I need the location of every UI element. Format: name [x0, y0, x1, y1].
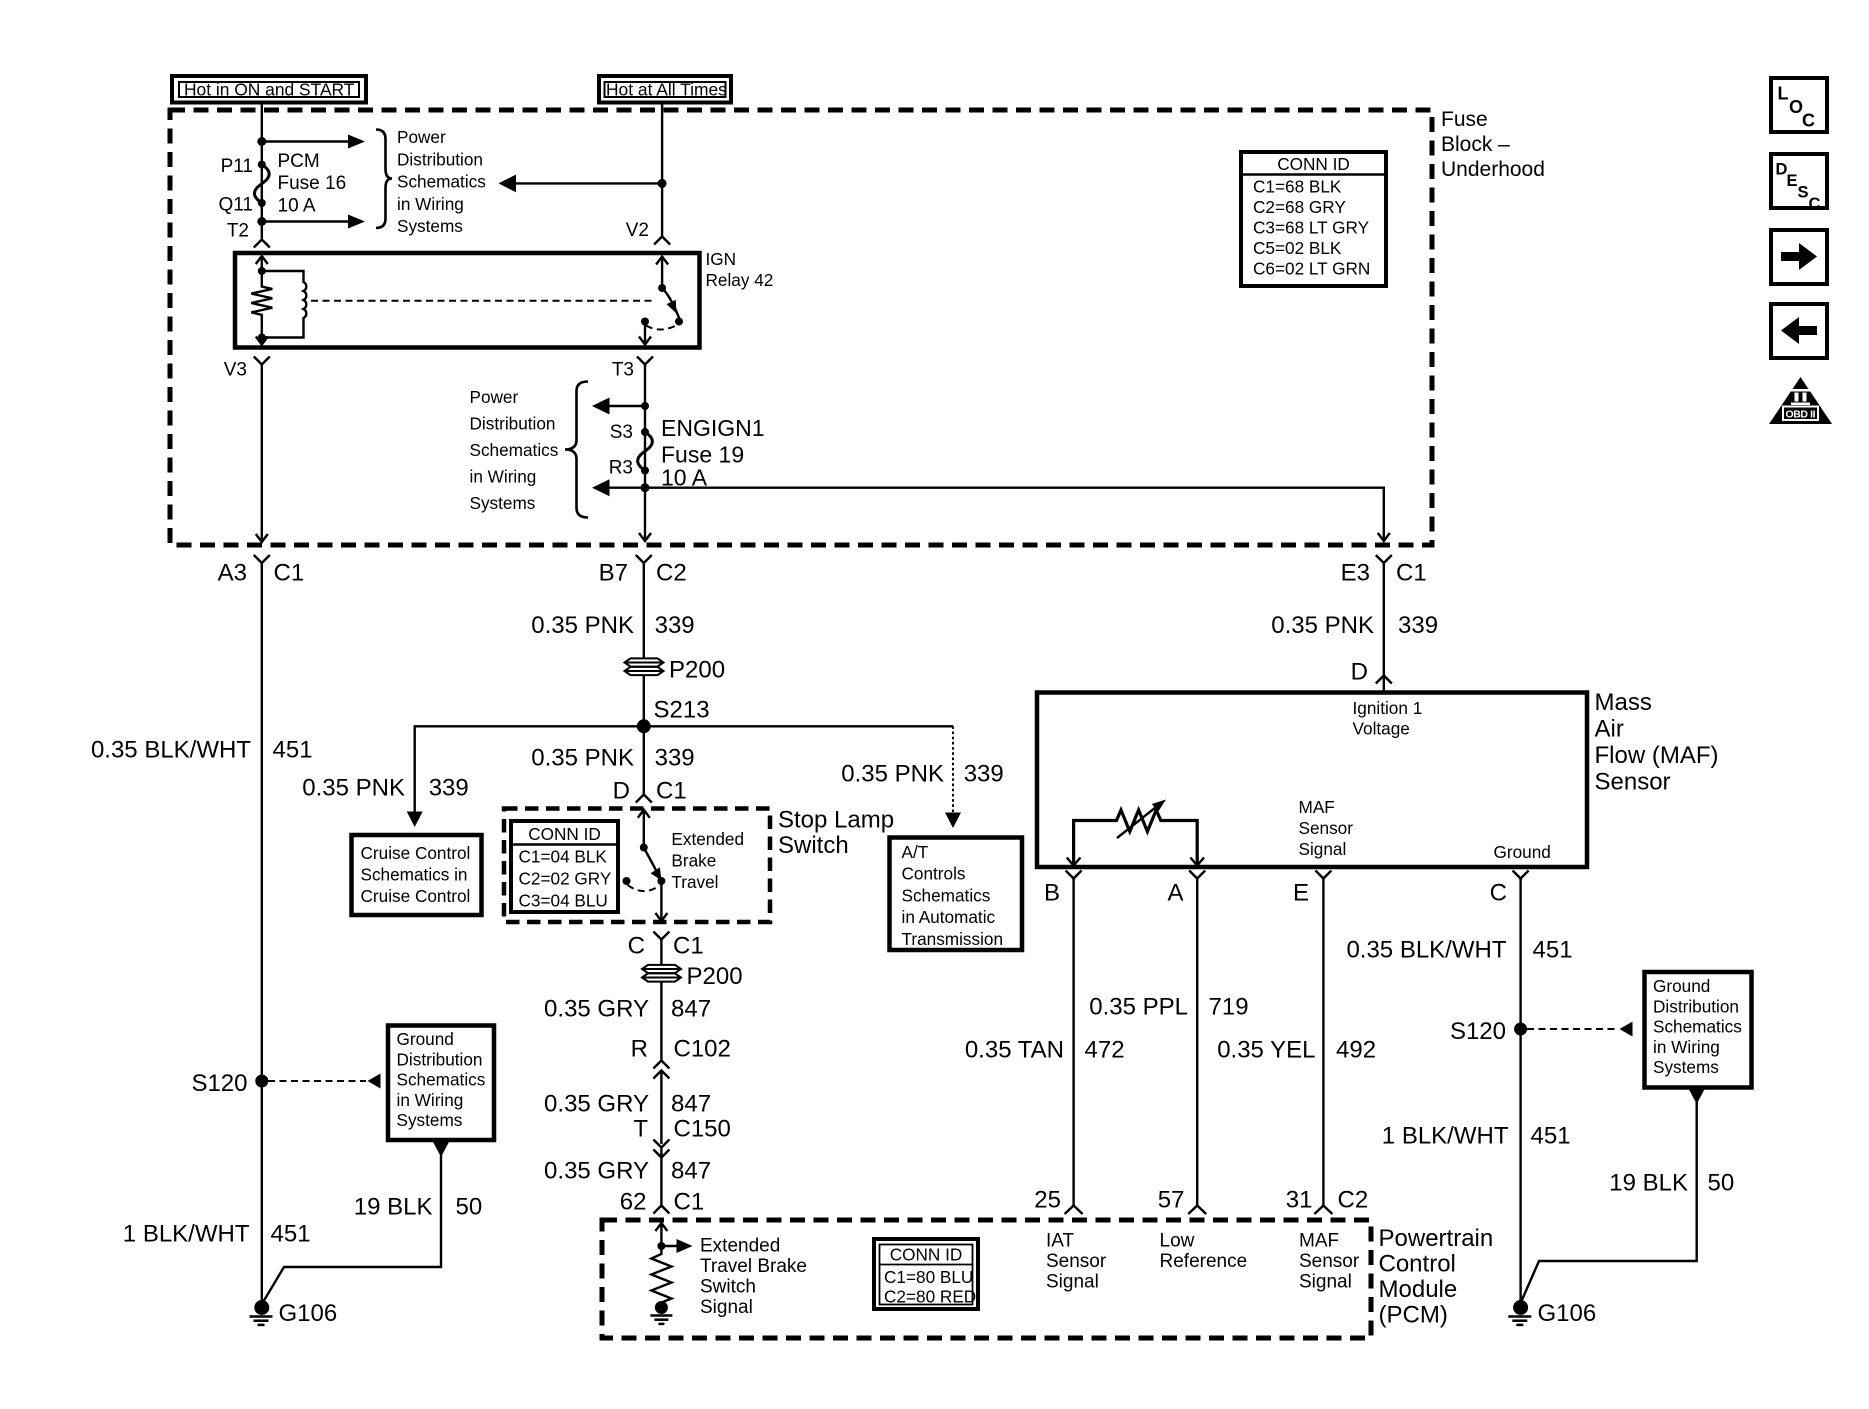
wire label 0.35 GRY 847 (2)	[544, 1091, 711, 1118]
relay coil bottom node	[258, 334, 266, 342]
fuse F19 (ENGIGN1 Fuse 19): S3/R3 terminals	[638, 428, 653, 475]
svg-text:C2=02 GRY: C2=02 GRY	[519, 868, 612, 888]
svg-text:Air: Air	[1595, 716, 1624, 743]
svg-text:Systems: Systems	[1653, 1057, 1719, 1077]
pin T2 connector chevron at relay	[254, 240, 270, 248]
svg-text:50: 50	[456, 1194, 483, 1221]
box: Ground Distribution Schematics in Wiring Systems (left)	[388, 1026, 494, 1141]
icon: OBD II symbol	[1769, 377, 1832, 424]
value label: PCM Fuse 16 10 A	[278, 151, 347, 217]
svg-text:C1=80 BLU: C1=80 BLU	[884, 1267, 973, 1287]
svg-text:L: L	[1778, 84, 1789, 104]
icon: LOC button	[1771, 78, 1827, 132]
wire label 0.35 PNK 339 (cruise branch)	[302, 775, 468, 802]
relay switch: entry arrow (open) from V2	[656, 257, 668, 289]
header box: Hot in ON and START	[172, 76, 366, 103]
svg-text:Signal: Signal	[1046, 1272, 1099, 1293]
svg-text:S120: S120	[1450, 1018, 1506, 1045]
svg-text:0.35 PNK: 0.35 PNK	[531, 745, 634, 772]
svg-text:Switch: Switch	[778, 832, 849, 859]
svg-text:25: 25	[1034, 1187, 1061, 1214]
pin E3 / C1 below fuse block	[1341, 555, 1427, 587]
wire: from Hot in ON box down to relay (fuse 16 column)	[261, 103, 263, 240]
svg-text:Controls: Controls	[902, 864, 966, 884]
wire: P200 to S213	[643, 675, 645, 726]
label: Extended Travel Brake Switch Signal	[700, 1236, 807, 1319]
junction node above P11	[257, 137, 266, 146]
label: Mass Air Flow (MAF) Sensor	[1595, 689, 1719, 796]
svg-text:847: 847	[671, 1158, 711, 1185]
stop lamp switch: exit arrow (open)	[655, 881, 667, 921]
wire: V3 down to fuse block edge	[256, 365, 268, 543]
fuse block underhood dashed box	[170, 110, 1432, 545]
relay switch contact (NO, right)	[675, 318, 683, 326]
svg-text:Cruise Control: Cruise Control	[361, 886, 471, 906]
stop lamp switch pivot	[640, 844, 648, 852]
svg-text:Schematics: Schematics	[1653, 1017, 1742, 1037]
svg-text:Stop Lamp: Stop Lamp	[778, 807, 894, 834]
MAF pin E	[1293, 871, 1331, 907]
svg-text:0.35 GRY: 0.35 GRY	[544, 1091, 649, 1118]
svg-text:Power: Power	[470, 387, 519, 407]
svg-text:Travel: Travel	[671, 872, 718, 892]
svg-text:339: 339	[655, 745, 695, 772]
svg-text:in Automatic: in Automatic	[902, 907, 996, 927]
label: Extended Brake Travel	[671, 829, 744, 892]
svg-text:C3=68 LT GRY: C3=68 LT GRY	[1253, 218, 1370, 238]
connector ID table (stop lamp switch)	[511, 821, 618, 912]
dashed reference link S120 to ground distribution (right)	[1527, 1022, 1633, 1037]
grommet P200 (upper)	[625, 657, 726, 684]
svg-text:Transmission: Transmission	[902, 929, 1004, 949]
svg-text:Underhood: Underhood	[1441, 158, 1545, 181]
svg-text:Hot in ON and START: Hot in ON and START	[184, 80, 355, 100]
splice S213	[637, 697, 710, 734]
svg-text:Systems: Systems	[397, 216, 463, 236]
relay coil inductor (4 bumps)	[262, 271, 307, 338]
arrow to power distribution (top)	[262, 135, 365, 149]
in-line connector C150 (pin T)	[633, 1116, 731, 1158]
svg-text:0.35 BLK/WHT: 0.35 BLK/WHT	[91, 737, 251, 764]
svg-text:P200: P200	[669, 657, 725, 684]
svg-text:Schematics: Schematics	[397, 172, 486, 192]
relay switch exit arrow (open)	[639, 322, 651, 345]
svg-text:C: C	[628, 933, 645, 960]
relay coil exit arrow (open)	[256, 337, 268, 345]
svg-text:Module: Module	[1379, 1276, 1458, 1303]
svg-text:0.35 PPL: 0.35 PPL	[1089, 994, 1188, 1021]
svg-text:CONN ID: CONN ID	[528, 824, 601, 844]
svg-text:OBD II: OBD II	[1786, 409, 1816, 421]
svg-text:62: 62	[620, 1189, 647, 1216]
svg-text:0.35 GRY: 0.35 GRY	[544, 1158, 649, 1185]
svg-text:Extended: Extended	[671, 829, 744, 849]
svg-text:Power: Power	[397, 127, 446, 147]
svg-text:C: C	[1490, 880, 1507, 907]
svg-text:C150: C150	[674, 1116, 731, 1143]
MAF pin C	[1490, 871, 1529, 907]
pin 57 at PCM	[1158, 1187, 1206, 1215]
wire: circuit 339 down to P200	[643, 563, 645, 658]
wire: T3 down to ENGIGN1 fuse	[644, 365, 646, 488]
icon: back arrow button	[1771, 304, 1827, 358]
PCM internal ground	[650, 1301, 672, 1324]
svg-text:0.35 PNK: 0.35 PNK	[302, 775, 405, 802]
svg-text:R: R	[631, 1036, 648, 1063]
svg-text:Travel Brake: Travel Brake	[700, 1256, 807, 1277]
svg-text:19 BLK: 19 BLK	[1609, 1170, 1688, 1197]
svg-text:C1: C1	[673, 933, 704, 960]
node R3 junction + arrow to power distribution	[592, 479, 650, 496]
wire label 0.35 YEL 492	[1217, 1037, 1376, 1064]
pin V3: connector chevron below relay	[254, 357, 270, 367]
wire: circuit 451 left column down to G106	[261, 563, 263, 1301]
note: Power Distribution Schematics in Wiring Systems (top)	[397, 127, 486, 236]
svg-text:0.35 GRY: 0.35 GRY	[544, 996, 649, 1023]
svg-text:(PCM): (PCM)	[1379, 1302, 1448, 1329]
wire: MAF sensor signal (E to PCM 31)	[1322, 879, 1324, 1207]
wire: ground (C to G106 right)	[1519, 879, 1521, 1305]
relay coil branch: entry arrow (open)	[256, 256, 268, 271]
stop lamp switch: entry arrow (open)	[638, 810, 650, 848]
pin label: MAF Sensor Signal (PCM)	[1299, 1231, 1360, 1293]
MAF pin B	[1044, 871, 1082, 907]
svg-text:R3: R3	[609, 458, 633, 479]
svg-text:451: 451	[273, 737, 313, 764]
svg-text:719: 719	[1209, 994, 1249, 1021]
MAF sensor box	[1037, 693, 1587, 868]
pin 25 at PCM	[1034, 1187, 1082, 1215]
wire: circuit 339 down to MAF sensor	[1383, 563, 1385, 692]
svg-text:ENGIGN1: ENGIGN1	[661, 415, 765, 441]
svg-text:451: 451	[271, 1221, 311, 1248]
svg-text:C2: C2	[1338, 1187, 1369, 1214]
svg-text:Sensor: Sensor	[1299, 818, 1354, 838]
svg-text:847: 847	[671, 996, 711, 1023]
svg-text:339: 339	[964, 761, 1004, 788]
wire: circuit 847 down to PCM pin 62	[660, 1148, 662, 1207]
svg-text:E3: E3	[1341, 560, 1370, 587]
pin 31 / C2 at PCM	[1286, 1187, 1368, 1215]
svg-text:Sensor: Sensor	[1299, 1251, 1360, 1272]
wire: S213 branch right to A/T controls (dotted)	[644, 726, 961, 828]
svg-text:Signal: Signal	[700, 1297, 753, 1318]
wire: low reference (A to PCM 57)	[1196, 879, 1198, 1207]
fuse F16 (PCM Fuse 16): P11/Q11 terminals	[254, 161, 269, 208]
svg-text:P200: P200	[687, 963, 743, 990]
svg-text:C6=02 LT GRN: C6=02 LT GRN	[1253, 259, 1370, 279]
wire: circuit 847 down to C150	[660, 1071, 662, 1145]
relay actuation dashed link	[311, 300, 656, 302]
PCM internal node + arrow: Extended Travel Brake Switch Signal	[657, 1239, 692, 1253]
svg-text:B: B	[1044, 880, 1060, 907]
relay coil top node	[258, 267, 266, 275]
svg-text:T: T	[633, 1116, 648, 1143]
note: Power Distribution Schematics in Wiring Systems (middle)	[470, 387, 559, 513]
relay switch contact (output, left)	[641, 318, 649, 326]
svg-text:C102: C102	[674, 1036, 731, 1063]
svg-text:C1: C1	[674, 1189, 705, 1216]
svg-text:Mass: Mass	[1595, 689, 1652, 716]
svg-text:Cruise Control: Cruise Control	[361, 843, 471, 863]
pin D / C1 at stop lamp switch	[613, 778, 687, 805]
brace for power distribution arrows (top)	[376, 130, 392, 229]
svg-text:Low: Low	[1160, 1231, 1195, 1252]
svg-text:0.35 BLK/WHT: 0.35 BLK/WHT	[1346, 937, 1506, 964]
relay switch travel dashed arc	[646, 325, 678, 330]
wire label 19 BLK 50 (right)	[1609, 1170, 1734, 1197]
svg-text:MAF: MAF	[1299, 797, 1335, 817]
stop lamp switch arm with arrowhead	[644, 848, 662, 881]
connector ID table (fuse block)	[1241, 152, 1386, 286]
svg-text:339: 339	[1398, 612, 1438, 639]
relay switch pivot	[658, 284, 666, 292]
svg-text:1 BLK/WHT: 1 BLK/WHT	[1382, 1123, 1509, 1150]
wire label 0.35 PNK 339 (A/T branch)	[841, 761, 1003, 788]
relay K42 box (IGN Relay 42)	[235, 253, 700, 348]
stop lamp switch contact node	[657, 877, 665, 885]
svg-text:Brake: Brake	[671, 851, 716, 871]
relay switch arm (curved, arrowhead)	[662, 288, 679, 319]
splice S120 (left)	[191, 1070, 268, 1097]
wire: 19 BLK 50 from ground distribution box down to G106 (right)	[1522, 1088, 1706, 1301]
wire label 0.35 TAN 472	[965, 1037, 1125, 1064]
wire label 0.35 GRY 847 (3)	[544, 1158, 711, 1185]
svg-text:S3: S3	[610, 422, 633, 443]
svg-text:Extended: Extended	[700, 1236, 780, 1257]
svg-text:0.35 YEL: 0.35 YEL	[1217, 1037, 1315, 1064]
svg-text:Sensor: Sensor	[1595, 769, 1671, 796]
svg-text:G106: G106	[279, 1300, 338, 1327]
svg-text:O: O	[1789, 97, 1803, 117]
svg-text:A3: A3	[218, 560, 247, 587]
svg-text:IAT: IAT	[1046, 1231, 1075, 1252]
pin T3: connector chevron below relay	[637, 357, 653, 367]
relay coil resistance (zigzag)	[251, 271, 272, 338]
svg-text:19 BLK: 19 BLK	[354, 1194, 433, 1221]
svg-text:Systems: Systems	[397, 1110, 463, 1130]
pin 62 / C1 at PCM	[620, 1189, 704, 1216]
svg-text:A: A	[1167, 880, 1183, 907]
label: Fuse Block - Underhood	[1441, 108, 1545, 181]
svg-text:Distribution: Distribution	[470, 414, 556, 434]
icon: DESC button	[1771, 154, 1827, 213]
wire: IAT sensor signal (B to PCM 25)	[1072, 879, 1074, 1207]
svg-text:Hot at All Times: Hot at All Times	[606, 80, 727, 100]
box: Cruise Control Schematics in Cruise Control	[352, 835, 482, 915]
stop lamp switch travel dashed arc	[628, 885, 660, 891]
MAF variable resistor (sense element)	[1067, 800, 1204, 866]
pin B7 / C2 below fuse block	[599, 555, 687, 587]
svg-text:Relay 42: Relay 42	[706, 270, 774, 290]
svg-text:Powertrain: Powertrain	[1379, 1225, 1494, 1252]
svg-text:Q11: Q11	[218, 195, 253, 216]
pin A3 / C1 below fuse block	[218, 555, 305, 587]
svg-text:V2: V2	[626, 220, 649, 241]
pin label: Low Reference	[1160, 1231, 1248, 1273]
in-line connector C102 (pin R)	[631, 1036, 731, 1079]
box: Ground Distribution Schematics in Wiring Systems (right)	[1645, 972, 1752, 1088]
svg-text:492: 492	[1336, 1037, 1376, 1064]
svg-text:S120: S120	[191, 1070, 247, 1097]
wire label 0.35 BLK/WHT 451 (right)	[1346, 937, 1572, 964]
svg-text:B7: B7	[599, 560, 628, 587]
svg-text:CONN ID: CONN ID	[890, 1245, 963, 1265]
svg-text:C1=04 BLK: C1=04 BLK	[519, 847, 608, 867]
pin label: IAT Sensor Signal	[1046, 1231, 1107, 1293]
wire: S213 down to stop lamp switch	[643, 726, 645, 795]
svg-text:339: 339	[429, 775, 469, 802]
junction node on V2 wire	[658, 179, 667, 188]
svg-text:Block –: Block –	[1441, 133, 1510, 156]
svg-text:T2: T2	[227, 221, 249, 242]
svg-text:CONN ID: CONN ID	[1277, 154, 1350, 174]
wire: R3 junction down to fuse block edge (B7)	[639, 488, 651, 541]
svg-text:G106: G106	[1538, 1300, 1597, 1327]
icon: forward arrow button	[1771, 230, 1827, 284]
wire: S213 branch left to cruise control	[407, 726, 644, 827]
MAF pin A	[1167, 871, 1205, 907]
svg-text:C1: C1	[274, 560, 305, 587]
ground G106 (right)	[1508, 1300, 1596, 1327]
wire: ENGIGN1 feed across to E3	[645, 488, 1384, 541]
splice S120 (right)	[1450, 1018, 1527, 1045]
box: A/T Controls Schematics in Automatic Transmission	[890, 838, 1023, 951]
wire label 0.35 GRY 847 (1)	[544, 996, 711, 1023]
svg-text:E: E	[1293, 880, 1309, 907]
grommet P200 (lower)	[642, 940, 743, 991]
pin C / C1 below stop lamp switch	[628, 932, 704, 960]
svg-text:E: E	[1787, 172, 1798, 190]
svg-text:in Wiring: in Wiring	[470, 467, 537, 487]
svg-text:C2=80 RED: C2=80 RED	[884, 1287, 976, 1307]
svg-text:in Wiring: in Wiring	[397, 194, 464, 214]
svg-text:0.35 TAN: 0.35 TAN	[965, 1037, 1064, 1064]
svg-text:1 BLK/WHT: 1 BLK/WHT	[123, 1221, 250, 1248]
svg-text:C: C	[1802, 111, 1815, 131]
svg-text:Sensor: Sensor	[1046, 1251, 1107, 1272]
svg-text:S: S	[1798, 184, 1809, 202]
svg-text:Ignition 1: Ignition 1	[1353, 698, 1423, 718]
svg-text:P11: P11	[221, 156, 253, 177]
svg-text:Control: Control	[1379, 1251, 1456, 1278]
wire label 0.35 PNK 339 (right)	[1271, 612, 1438, 639]
svg-text:C3=04 BLU: C3=04 BLU	[519, 890, 608, 910]
svg-text:C2: C2	[656, 560, 687, 587]
PCM input: entry arrow (open) for pin 62	[655, 1223, 667, 1246]
stop lamp switch dashed box	[504, 809, 770, 923]
svg-text:339: 339	[655, 612, 695, 639]
wire label 0.35 BLK/WHT 451 (left)	[91, 737, 313, 764]
wire label 0.35 PPL 719	[1089, 994, 1248, 1021]
PCM internal resistor	[651, 1246, 671, 1304]
wire: 19 BLK 50 from ground distribution box down to G106 (left)	[263, 1141, 450, 1303]
svg-text:50: 50	[1708, 1170, 1735, 1197]
svg-text:Signal: Signal	[1299, 839, 1347, 859]
svg-text:Systems: Systems	[470, 493, 536, 513]
svg-text:PCM: PCM	[278, 151, 320, 172]
wire label 1 BLK/WHT 451 (left)	[123, 1221, 311, 1248]
wire label 19 BLK 50 (left)	[354, 1194, 482, 1221]
svg-text:0.35 PNK: 0.35 PNK	[1271, 612, 1374, 639]
svg-text:Schematics in: Schematics in	[361, 865, 468, 885]
svg-text:Voltage: Voltage	[1353, 719, 1410, 739]
svg-text:Ground: Ground	[1494, 842, 1551, 862]
svg-text:C1: C1	[656, 778, 687, 805]
svg-text:C2=68 GRY: C2=68 GRY	[1253, 197, 1346, 217]
svg-text:A/T: A/T	[902, 842, 929, 862]
svg-text:472: 472	[1085, 1037, 1125, 1064]
label: Powertrain Control Module (PCM)	[1379, 1225, 1494, 1329]
value label: ENGIGN1 Fuse 19 10 A	[661, 415, 765, 491]
svg-text:Flow (MAF): Flow (MAF)	[1595, 742, 1719, 769]
svg-text:V3: V3	[224, 360, 247, 381]
svg-text:Reference: Reference	[1160, 1251, 1248, 1272]
label: Stop Lamp Switch	[778, 807, 894, 860]
wire label 0.35 PNK 339 (lower)	[531, 745, 694, 772]
svg-text:Schematics: Schematics	[397, 1070, 486, 1090]
stop lamp switch alternate contact	[623, 877, 631, 885]
pin label: Ignition 1 Voltage	[1353, 698, 1423, 739]
svg-text:C1=68 BLK: C1=68 BLK	[1253, 177, 1342, 197]
svg-text:C1: C1	[1396, 560, 1427, 587]
wire: circuit 847 down to C102	[660, 982, 662, 1062]
node above S3 + arrow to power distribution	[592, 398, 649, 415]
svg-text:C5=02 BLK: C5=02 BLK	[1253, 238, 1342, 258]
svg-text:in Wiring: in Wiring	[397, 1090, 464, 1110]
svg-text:Schematics: Schematics	[902, 885, 991, 905]
svg-text:in Wiring: in Wiring	[1653, 1037, 1720, 1057]
svg-text:Distribution: Distribution	[1653, 996, 1739, 1016]
brace for power distribution arrows (middle)	[565, 382, 588, 518]
wire label 0.35 PNK 339 (upper middle)	[531, 612, 694, 639]
svg-text:31: 31	[1286, 1187, 1313, 1214]
header box: Hot at All Times	[599, 76, 731, 103]
svg-text:D: D	[1351, 659, 1368, 686]
svg-text:Distribution: Distribution	[397, 149, 483, 169]
svg-text:Ground: Ground	[1653, 976, 1710, 996]
pin label: MAF Sensor Signal (inside box)	[1299, 797, 1354, 859]
svg-text:Fuse 16: Fuse 16	[278, 173, 347, 194]
svg-text:IGN: IGN	[706, 249, 737, 269]
svg-text:Distribution: Distribution	[397, 1049, 483, 1069]
svg-text:MAF: MAF	[1299, 1231, 1339, 1252]
svg-text:Fuse: Fuse	[1441, 108, 1488, 131]
svg-text:C: C	[1809, 195, 1821, 213]
svg-text:451: 451	[1531, 1123, 1571, 1150]
label: IGN Relay 42	[706, 249, 774, 290]
svg-text:10 A: 10 A	[278, 196, 316, 217]
connector ID table (PCM)	[874, 1239, 978, 1309]
svg-text:451: 451	[1533, 937, 1573, 964]
ground G106 (left)	[250, 1300, 338, 1327]
svg-text:Signal: Signal	[1299, 1272, 1352, 1293]
PCM dashed box (Powertrain Control Module)	[602, 1220, 1371, 1338]
svg-text:Switch: Switch	[700, 1277, 756, 1298]
svg-text:Ground: Ground	[397, 1029, 454, 1049]
wire label 1 BLK/WHT 451 (right)	[1382, 1123, 1571, 1150]
svg-text:S213: S213	[654, 697, 710, 724]
svg-text:Schematics: Schematics	[470, 440, 559, 460]
arrow from V2 wire to Schematics text	[499, 175, 663, 193]
pin D at MAF sensor	[1351, 659, 1392, 686]
svg-text:D: D	[613, 778, 630, 805]
dashed reference link S120 to ground distribution (left)	[268, 1074, 381, 1089]
wire: from Hot at All Times down to relay (V2 column)	[661, 103, 663, 237]
svg-text:847: 847	[671, 1091, 711, 1118]
svg-text:57: 57	[1158, 1187, 1185, 1214]
svg-text:0.35 PNK: 0.35 PNK	[531, 612, 634, 639]
